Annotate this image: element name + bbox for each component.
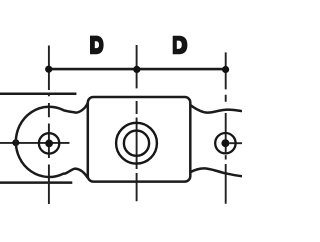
body: center block [88, 97, 191, 182]
hole: right lobe hole [215, 133, 235, 153]
label D (left span) [90, 36, 104, 55]
node: left hole center point [45, 140, 53, 148]
hole: left lobe hole [39, 133, 59, 153]
hole: center bore inner circle [124, 131, 149, 156]
body: right neck bottom curve (cropped at image edge) [190, 168, 242, 176]
node: center hole vertical centerline (dash-dot) [136, 45, 138, 201]
body: left lobe ear with neck curves [16, 103, 88, 178]
node: dimension point right [222, 66, 229, 73]
node: left hole vertical centerline (dash-dot) [48, 46, 50, 205]
node: left hole horizontal centerline [0, 142, 70, 144]
hole: center boss outer circle [116, 123, 157, 164]
node: right hole center point [221, 139, 229, 147]
node: right hole vertical centerline (dash-dot) [225, 52, 227, 203]
node: dimension point left [45, 66, 52, 73]
wire: upper edge line of mating part (left, cropped) [0, 92, 76, 95]
dimension line D-D across hole centers [49, 68, 226, 71]
body: right neck top curve and lobe (cropped at image edge) [190, 105, 242, 113]
wire: lower edge line of mating part (left, cropped) [0, 181, 72, 184]
node: dimension point middle [133, 66, 140, 73]
node: right hole horizontal centerline [229, 142, 242, 144]
label D (right span) [173, 36, 188, 55]
node: dimension point on lobe left edge [12, 139, 19, 146]
